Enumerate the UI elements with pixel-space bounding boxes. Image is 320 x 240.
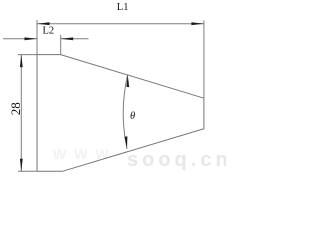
svg-text:θ: θ (130, 111, 135, 122)
svg-text:sooq.cn: sooq.cn (127, 149, 226, 171)
svg-text:L1: L1 (117, 2, 129, 13)
svg-text:28: 28 (8, 102, 23, 115)
svg-text:WWW: WWW (53, 146, 117, 162)
svg-text:L2: L2 (43, 26, 55, 37)
